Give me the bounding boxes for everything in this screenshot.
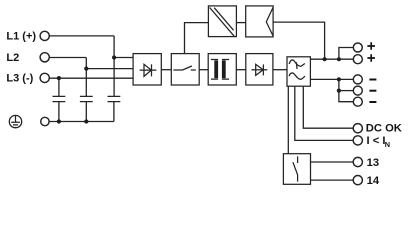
svg-text:L2: L2 — [6, 52, 19, 64]
node L3/C1 junction — [57, 76, 61, 80]
wire U2 to U3 — [236, 22, 245, 24]
relay switch symbol — [293, 156, 298, 181]
switch symbol in S1 — [173, 66, 195, 70]
svg-text:L3 (-): L3 (-) — [6, 73, 33, 85]
svg-text:L1 (+): L1 (+) — [6, 31, 36, 43]
terminal DC OK — [353, 124, 362, 133]
terminal minus 3 — [353, 97, 362, 106]
wire plus rail — [310, 58, 353, 60]
capacitor C2 — [80, 96, 93, 121]
wire plus branch up — [339, 48, 354, 60]
terminal 14 — [353, 176, 362, 185]
wire L1 vertical to C3 — [113, 36, 115, 96]
terminal L2 — [40, 53, 49, 62]
wire L2 horizontal — [49, 57, 86, 59]
transformer windings symbol — [211, 60, 229, 80]
wire current limit drop — [295, 86, 354, 140]
rectifier box U1 — [133, 54, 161, 85]
diode symbol in U1 — [140, 64, 157, 76]
diagonal symbol in U2 — [210, 8, 235, 37]
wire rectifier input 1 — [114, 57, 133, 59]
label minus 3 — [369, 101, 376, 103]
switch box S1 — [171, 54, 199, 85]
ground bus terminal — [41, 117, 49, 125]
wire U1 to S1 — [161, 69, 171, 71]
ground PE symbol — [9, 115, 21, 127]
label plus 2 — [367, 54, 375, 62]
svg-text:14: 14 — [367, 175, 380, 187]
node L1/rect junction — [112, 55, 116, 59]
node feedback tap — [323, 57, 327, 61]
terminal minus 1 — [353, 75, 362, 84]
terminal I less than IN — [353, 136, 362, 145]
node L2/rect junction — [84, 67, 88, 71]
wire L3 to rectifier input 3 — [49, 77, 133, 79]
terminal L1 — [40, 31, 49, 40]
output filter box U4 — [287, 57, 310, 86]
feedback box U3 — [246, 6, 273, 37]
wire C1 drop — [58, 78, 60, 96]
svg-text:DC OK: DC OK — [366, 123, 402, 135]
label plus 1 — [367, 42, 375, 50]
wire minus rail — [310, 78, 353, 80]
wire relay to 14 — [311, 179, 354, 181]
chevron symbol in U3 — [266, 7, 273, 36]
wire DC OK drop — [303, 86, 353, 128]
wire D1 to output filter — [273, 69, 287, 71]
terminal minus 2 — [353, 86, 362, 95]
wire minus vertical — [339, 79, 354, 101]
diode box D1 — [246, 54, 273, 85]
terminal plus 2 — [353, 55, 362, 64]
svg-text:13: 13 — [367, 157, 379, 169]
wire L1 horizontal — [49, 35, 114, 37]
wire relay feed drop — [287, 86, 289, 154]
terminal 13 — [353, 157, 362, 166]
svg-text:N: N — [385, 140, 390, 149]
wire S1 to T1 — [199, 69, 208, 71]
wire rectifier input 2 — [86, 68, 133, 70]
diode symbol in D1 — [252, 64, 268, 75]
node bus/C2 — [84, 119, 88, 123]
terminal L3 — [40, 73, 49, 82]
transformer box T1 — [208, 54, 236, 85]
capacitor C1 — [53, 96, 66, 121]
terminal plus 1 — [353, 43, 362, 52]
node bus/C1 — [57, 119, 61, 123]
wire U3 to output node — [273, 22, 325, 59]
PWM converter box U2 — [208, 6, 236, 37]
capacitor C3 — [108, 96, 121, 121]
wire minus mid branch — [339, 90, 354, 92]
ground bus wire — [49, 121, 114, 123]
node minus mid — [337, 89, 341, 93]
sine symbol in U4 — [289, 73, 305, 79]
label minus 2 — [369, 90, 376, 92]
label minus 1 — [369, 79, 376, 81]
node plus branch — [337, 57, 341, 61]
node minus branch — [337, 77, 341, 81]
relay box K1 — [283, 154, 310, 185]
wire relay to 13 — [311, 161, 354, 163]
wire T1 to D1 — [236, 69, 246, 71]
svg-text:I < I: I < I — [367, 135, 386, 147]
sine-with-tick symbol in U4 — [289, 60, 305, 69]
wire S1 top branch up — [185, 23, 209, 54]
wire L2 vertical to C2 — [85, 58, 87, 97]
